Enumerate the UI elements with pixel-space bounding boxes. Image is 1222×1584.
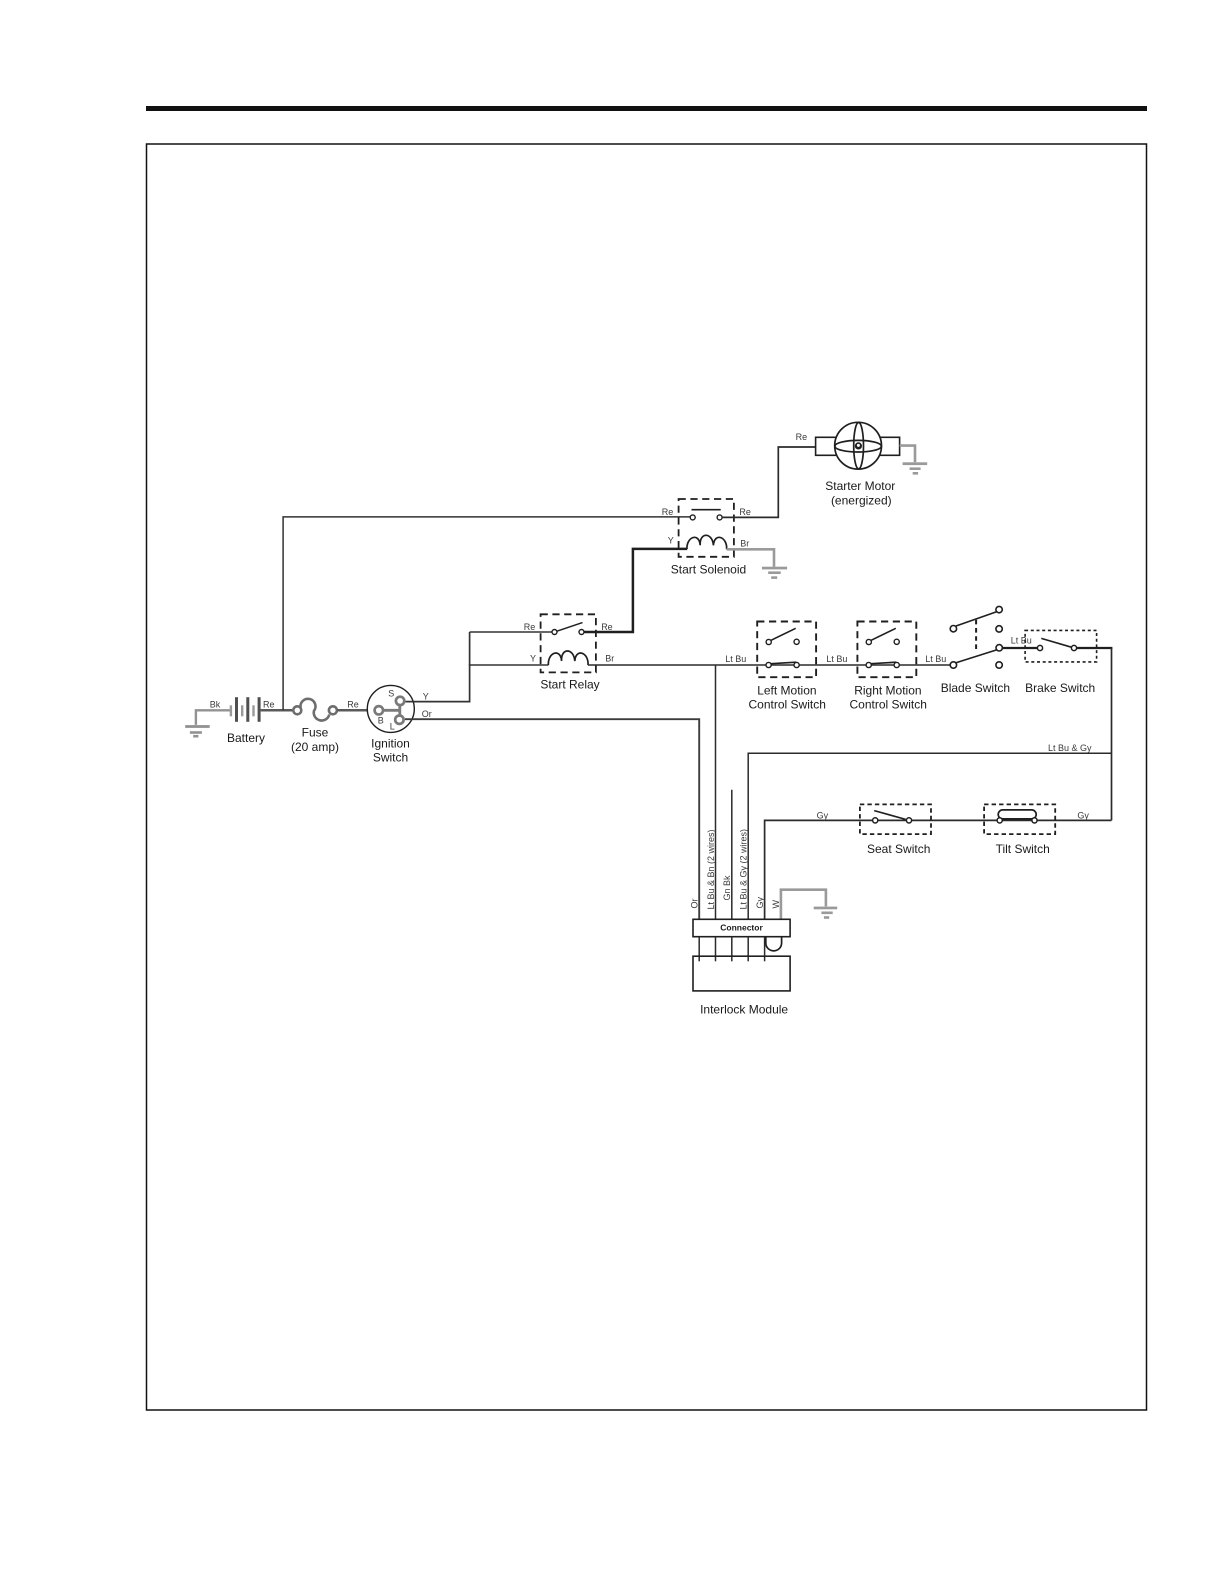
wire Re solenoid to starter motor bbox=[722, 447, 816, 517]
svg-text:Re: Re bbox=[662, 507, 674, 517]
wire Lt Bu blade to brake switch bbox=[1002, 647, 1038, 649]
ground (starter motor) bbox=[900, 446, 928, 475]
svg-text:Gy: Gy bbox=[817, 810, 829, 820]
svg-text:Re: Re bbox=[739, 507, 751, 517]
left motion control switch bbox=[749, 622, 826, 712]
svg-text:Tilt Switch: Tilt Switch bbox=[996, 842, 1050, 856]
wire Lt Bu & Bn down to connector bbox=[715, 665, 717, 919]
wire Re battery to fuse bbox=[261, 709, 293, 712]
wire relay contact to solenoid coil bbox=[584, 549, 687, 632]
svg-text:Blade Switch: Blade Switch bbox=[941, 681, 1010, 695]
svg-text:Bk: Bk bbox=[210, 700, 221, 710]
svg-text:Lt Bu: Lt Bu bbox=[1011, 636, 1032, 646]
connector bbox=[693, 919, 790, 936]
svg-text:Ignition: Ignition bbox=[371, 737, 410, 751]
battery bbox=[227, 697, 265, 745]
svg-text:Gy: Gy bbox=[1077, 810, 1089, 820]
wire Lt Bu & Gy bbox=[748, 753, 1111, 919]
page border frame bbox=[147, 144, 1147, 1410]
svg-text:Control Switch: Control Switch bbox=[749, 697, 826, 711]
svg-text:Re: Re bbox=[601, 622, 613, 632]
svg-text:Start Solenoid: Start Solenoid bbox=[671, 563, 746, 577]
ground (W at connector) bbox=[814, 907, 838, 919]
svg-text:Left Motion: Left Motion bbox=[757, 684, 816, 698]
start solenoid bbox=[662, 499, 751, 577]
svg-text:Switch: Switch bbox=[373, 751, 408, 765]
wire into relay contact bbox=[470, 631, 553, 633]
svg-text:Start Relay: Start Relay bbox=[540, 678, 599, 692]
svg-text:(20 amp): (20 amp) bbox=[291, 740, 339, 754]
right motion control switch bbox=[850, 622, 927, 712]
wire Gn Bk down to connector bbox=[731, 790, 733, 920]
header rule bbox=[146, 106, 1147, 111]
svg-text:Gy: Gy bbox=[755, 896, 765, 908]
seat switch bbox=[860, 804, 931, 855]
wire Re junction up to start solenoid bbox=[283, 517, 690, 710]
wire Re fuse to ignition switch bbox=[337, 709, 374, 712]
ground (solenoid Br) bbox=[727, 549, 788, 579]
svg-text:Control Switch: Control Switch bbox=[850, 697, 927, 711]
wire Or ignition L to connector bbox=[405, 719, 699, 919]
svg-text:Re: Re bbox=[524, 622, 536, 632]
wire Y into relay coil bbox=[469, 664, 549, 666]
wire right vertical brake to Gy line bbox=[1111, 648, 1113, 820]
svg-text:(energized): (energized) bbox=[831, 494, 892, 508]
brake switch bbox=[1025, 630, 1097, 694]
wire Y ignition S to start relay bbox=[406, 632, 470, 702]
svg-text:Lt Bu: Lt Bu bbox=[925, 654, 946, 664]
svg-text:Lt Bu: Lt Bu bbox=[826, 654, 847, 664]
jumper loop pins 5-6 below connector bbox=[766, 937, 782, 951]
svg-text:Or: Or bbox=[422, 709, 432, 719]
wire brake switch to right vertical bbox=[1077, 647, 1113, 649]
svg-text:Lt Bu & Bn (2 wires): Lt Bu & Bn (2 wires) bbox=[706, 829, 716, 909]
svg-text:Starter Motor: Starter Motor bbox=[825, 479, 895, 493]
svg-text:Y: Y bbox=[530, 653, 536, 663]
blade switch bbox=[941, 606, 1010, 694]
wire Gy to seat/tilt switches bbox=[765, 820, 1112, 919]
start relay K1 bbox=[524, 614, 614, 691]
svg-text:Lt Bu: Lt Bu bbox=[725, 654, 746, 664]
svg-text:S: S bbox=[388, 688, 394, 698]
svg-text:Lt Bu & Gy: Lt Bu & Gy bbox=[1048, 743, 1092, 753]
tilt switch bbox=[984, 804, 1055, 855]
svg-text:Re: Re bbox=[347, 700, 359, 710]
wire Lt Bu main line relay coil to blade switch bbox=[588, 664, 951, 666]
svg-text:Re: Re bbox=[263, 700, 275, 710]
svg-text:Brake Switch: Brake Switch bbox=[1025, 681, 1095, 695]
svg-text:Right Motion: Right Motion bbox=[854, 684, 921, 698]
interlock module bbox=[693, 956, 790, 1016]
svg-text:Gn Bk: Gn Bk bbox=[722, 875, 732, 901]
svg-text:Seat Switch: Seat Switch bbox=[867, 842, 930, 856]
svg-text:L: L bbox=[390, 722, 395, 732]
ground (battery) bbox=[185, 710, 230, 737]
fuse (20 amp) bbox=[291, 699, 339, 754]
svg-text:Br: Br bbox=[605, 654, 614, 664]
svg-text:Lt Bu & Gy (2 wires): Lt Bu & Gy (2 wires) bbox=[739, 829, 749, 910]
connector pin stubs into module bbox=[699, 937, 764, 962]
wire W to ground bbox=[781, 890, 826, 920]
svg-text:Interlock Module: Interlock Module bbox=[700, 1003, 788, 1017]
svg-text:Y: Y bbox=[668, 535, 674, 545]
ignition switch bbox=[367, 685, 414, 764]
svg-text:Battery: Battery bbox=[227, 731, 265, 745]
svg-text:B: B bbox=[378, 715, 384, 725]
svg-text:Or: Or bbox=[690, 898, 700, 908]
svg-text:Connector: Connector bbox=[720, 922, 763, 932]
svg-text:Y: Y bbox=[423, 691, 429, 701]
svg-text:Fuse: Fuse bbox=[302, 726, 329, 740]
svg-text:Br: Br bbox=[740, 539, 749, 549]
starter motor (energized) bbox=[816, 422, 900, 507]
svg-text:Re: Re bbox=[796, 432, 808, 442]
